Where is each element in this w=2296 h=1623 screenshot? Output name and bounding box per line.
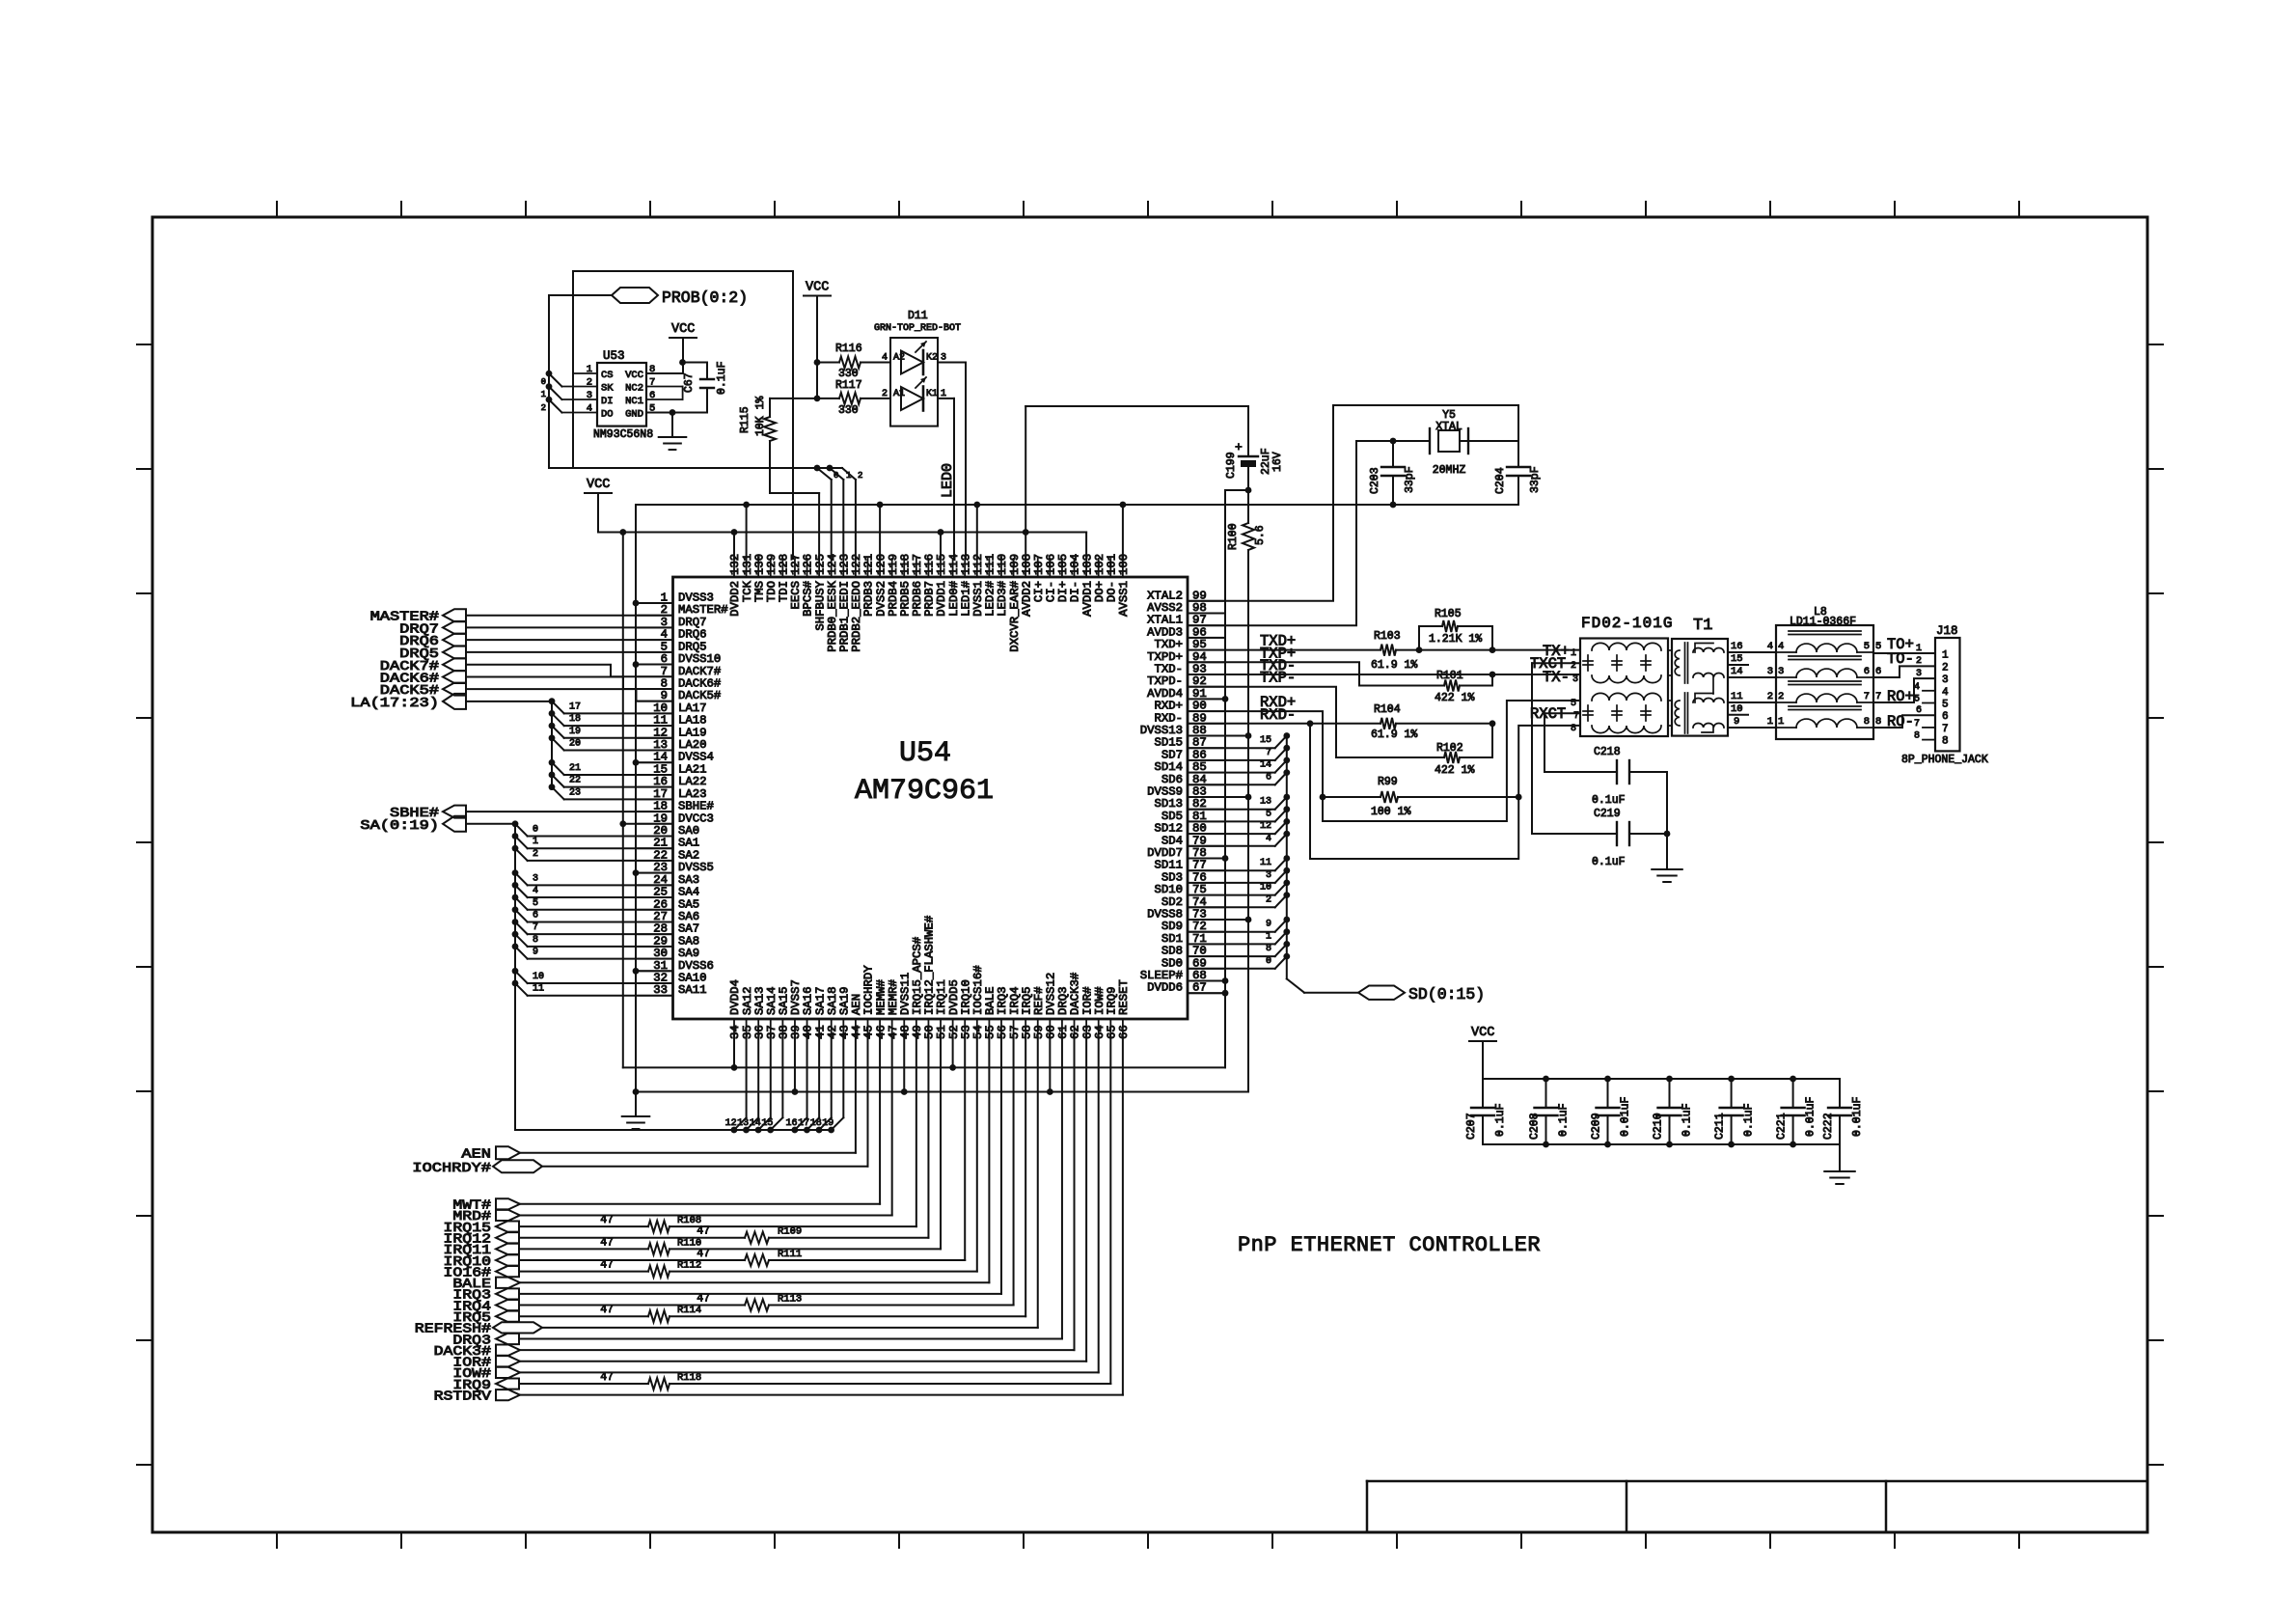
svg-text:C218: C218 <box>1594 746 1621 758</box>
svg-text:DI: DI <box>601 396 614 407</box>
svg-text:1: 1 <box>541 390 546 399</box>
wire TXD- pin 93 to filter TX- <box>1188 674 1580 675</box>
LED D11 green element <box>901 351 923 374</box>
U54 right pins 99-67 stubs, numbers and names <box>1188 601 1223 993</box>
resistor R104 51.9 1% in RXD- line <box>1188 723 1380 725</box>
connector SBHE# <box>443 806 466 818</box>
connector DRQ3 <box>496 1334 519 1344</box>
svg-text:C203: C203 <box>1369 467 1381 494</box>
svg-text:10K 1%: 10K 1% <box>754 396 767 436</box>
junction <box>1664 831 1671 838</box>
resistor R105 1.21K 1% parallel <box>1419 626 1442 650</box>
resistor R114 47 ohm in series with IRQ5 <box>519 1315 648 1317</box>
svg-text:10: 10 <box>1731 703 1743 715</box>
svg-text:2: 2 <box>541 403 546 413</box>
connector MWT# <box>496 1198 520 1209</box>
svg-text:3: 3 <box>1767 666 1773 677</box>
wire SD5 pin 81 to SD bus <box>1188 820 1275 822</box>
wire DACK3# to pin 62 <box>520 1349 1075 1351</box>
wire DVSS7 pin 39 to ground line <box>794 1037 796 1092</box>
wire IRQ5 to pin 58 <box>1025 1037 1026 1316</box>
svg-text:2: 2 <box>533 849 538 860</box>
wire SBHE# to pin 18 <box>466 811 673 812</box>
capacitor C211 0.1uF <box>1731 1079 1733 1108</box>
transformer T1 body <box>1672 639 1728 736</box>
connector IRQ5 <box>496 1311 519 1322</box>
svg-text:T1: T1 <box>1693 617 1712 635</box>
connector DRQ5 <box>443 646 466 658</box>
svg-text:C211: C211 <box>1714 1113 1727 1140</box>
svg-text:330: 330 <box>838 404 859 417</box>
wire DACK6# to pin 8 <box>466 676 673 689</box>
svg-text:RO-: RO- <box>1887 713 1914 730</box>
wire TCK pin 131 to ground rail <box>746 505 748 559</box>
crystal Y5 20MHZ <box>1356 440 1430 442</box>
wire DVDD7 pin 78 <box>1188 858 1225 860</box>
svg-text:0: 0 <box>834 471 838 481</box>
bus LA vertical <box>466 701 552 702</box>
svg-text:61.9 1%: 61.9 1% <box>1371 659 1417 672</box>
svg-text:AVSS1: AVSS1 <box>1117 581 1131 617</box>
capacitor C210 0.1uF <box>1669 1079 1671 1108</box>
svg-text:0: 0 <box>533 824 538 835</box>
bus SA taps to pins 20-33 <box>512 820 519 827</box>
connector REFRESH# <box>493 1322 542 1333</box>
junction <box>670 409 676 416</box>
resistor R113 47 ohm in series with IRQ4 <box>519 1305 745 1307</box>
svg-text:VCC: VCC <box>806 281 829 295</box>
wire DVSS9 pin 83 <box>1188 796 1248 798</box>
capacitor C208 0.1uF <box>1545 1079 1547 1108</box>
svg-text:CS: CS <box>601 370 614 381</box>
junction <box>731 1064 738 1071</box>
svg-text:C199: C199 <box>1225 452 1238 479</box>
connector IRQ15 <box>496 1221 519 1231</box>
svg-text:2: 2 <box>587 377 592 389</box>
node PROB bus taps to pins 124/123/122 <box>814 465 821 472</box>
svg-text:5.6: 5.6 <box>1254 525 1267 545</box>
wire DACK7# to pin 7 <box>466 665 673 677</box>
svg-text:3: 3 <box>1778 666 1784 677</box>
LED D11 red element <box>901 387 923 410</box>
svg-text:5: 5 <box>1942 700 1949 711</box>
svg-text:RESET: RESET <box>1117 979 1131 1015</box>
svg-text:R103: R103 <box>1374 630 1401 643</box>
svg-text:C207: C207 <box>1465 1113 1478 1140</box>
svg-text:6: 6 <box>1916 705 1922 716</box>
wire analog VCC feed <box>1025 405 1248 407</box>
svg-text:1: 1 <box>1942 650 1949 662</box>
svg-text:6: 6 <box>1942 711 1949 723</box>
svg-text:DO: DO <box>601 409 614 421</box>
svg-text:5: 5 <box>1864 641 1870 652</box>
junction <box>1222 855 1229 862</box>
bus SA horizontal below chip <box>515 1129 832 1131</box>
svg-text:12: 12 <box>1260 821 1271 832</box>
svg-text:VCC: VCC <box>671 322 695 337</box>
svg-text:R113: R113 <box>778 1294 802 1306</box>
svg-text:+: + <box>1235 440 1243 454</box>
wire DRQ6 to pin 4 <box>466 639 673 641</box>
svg-text:22: 22 <box>569 776 581 786</box>
svg-text:1: 1 <box>1916 644 1922 654</box>
wire DVSS2 pin 120 to ground rail <box>879 505 881 559</box>
svg-text:R104: R104 <box>1374 703 1401 716</box>
svg-text:47: 47 <box>600 1259 614 1272</box>
svg-text:7: 7 <box>1875 691 1881 702</box>
junction <box>619 529 626 536</box>
wire DVCC3 pin 19 <box>623 823 673 825</box>
svg-text:4: 4 <box>587 403 592 415</box>
connector MASTER# <box>443 609 466 621</box>
svg-text:SK: SK <box>601 383 614 395</box>
svg-text:6: 6 <box>533 910 538 921</box>
svg-text:3: 3 <box>1266 870 1271 881</box>
wire MWT# to pin 46 <box>520 1203 880 1205</box>
svg-text:C219: C219 <box>1594 808 1621 820</box>
wire DRQ3 to pin 61 <box>519 1337 1062 1339</box>
svg-text:3: 3 <box>587 390 592 401</box>
junction <box>877 502 884 509</box>
svg-text:5: 5 <box>533 898 538 909</box>
svg-text:3: 3 <box>1916 669 1922 679</box>
junction <box>1047 1088 1053 1095</box>
wire DVSS6 pin 31 <box>636 970 673 972</box>
wire IRQ4 to pin 57 <box>1013 1037 1015 1306</box>
svg-text:4: 4 <box>882 353 888 364</box>
svg-text:1: 1 <box>1778 716 1784 728</box>
ground below C219 <box>1652 868 1682 870</box>
svg-text:14: 14 <box>750 1118 761 1129</box>
cap bank top rail <box>1483 1078 1840 1080</box>
resistor R100 5.6 to digital ground <box>1247 490 1249 523</box>
wire RXD- to filter RD- <box>1310 724 1580 859</box>
junction <box>1390 438 1397 445</box>
junction <box>633 600 640 607</box>
svg-text:2: 2 <box>1266 894 1271 905</box>
junction <box>633 968 640 975</box>
svg-text:16: 16 <box>1731 641 1743 652</box>
wire SD10 pin 75 to SD bus <box>1188 894 1275 896</box>
svg-text:2: 2 <box>1767 691 1773 702</box>
power VCC symbol above R116/R117 <box>804 295 831 297</box>
svg-text:4: 4 <box>1767 641 1773 652</box>
svg-text:R100: R100 <box>1227 523 1240 550</box>
resistor R116 <box>817 362 839 364</box>
wire SD9 pin 72 to SD bus <box>1188 931 1275 933</box>
wire IRQ11 to pin 51 <box>940 1037 942 1249</box>
connector DACK7# <box>443 658 466 671</box>
svg-text:U54: U54 <box>899 737 951 770</box>
wire SD13 pin 82 to SD bus <box>1188 809 1275 811</box>
svg-text:NM93C56N8: NM93C56N8 <box>593 428 653 441</box>
wire IRQ15 to pin 49 <box>916 1037 917 1226</box>
capacitor C199 22uF 16V <box>1247 406 1249 455</box>
wire DVSS3 pin 1 <box>636 602 673 604</box>
svg-text:7: 7 <box>1864 691 1870 702</box>
wire analog VCC to AVDD2 pin 108 <box>1025 406 1026 559</box>
svg-text:422 1%: 422 1% <box>1435 764 1475 777</box>
svg-text:19: 19 <box>569 727 581 737</box>
svg-text:18: 18 <box>810 1118 822 1129</box>
wire SD6 pin 84 to SD bus <box>1188 784 1275 785</box>
svg-text:C210: C210 <box>1653 1113 1665 1140</box>
svg-text:17: 17 <box>798 1118 809 1129</box>
connector BALE <box>496 1278 520 1288</box>
svg-text:19: 19 <box>822 1118 834 1129</box>
wire TO- to J18 pin 2 <box>1873 666 1935 677</box>
U53 pin numbers and names <box>587 364 656 421</box>
VCC line below chip <box>623 1066 1225 1068</box>
junction <box>1245 487 1252 494</box>
resistor R101 422 1% TXP+ to TXD- <box>1188 662 1444 685</box>
wire SD0 pin 69 to SD bus <box>1188 968 1275 970</box>
resistor R108 47 ohm in series with IRQ15 <box>519 1225 648 1227</box>
svg-text:6: 6 <box>1875 666 1881 677</box>
svg-text:1.21K 1%: 1.21K 1% <box>1429 633 1482 646</box>
wire SD2 pin 74 to SD bus <box>1188 906 1275 908</box>
wire VCC to R116/R117 <box>816 296 818 399</box>
svg-text:LA(17:23): LA(17:23) <box>350 696 439 711</box>
svg-text:9: 9 <box>1734 716 1739 728</box>
wire RSTDRV to pin 66 <box>520 1394 1123 1396</box>
svg-text:20MHZ: 20MHZ <box>1433 464 1466 477</box>
svg-text:C209: C209 <box>1591 1113 1603 1140</box>
junction <box>973 502 980 509</box>
svg-text:6: 6 <box>1266 772 1271 783</box>
wire IOR# to pin 63 <box>520 1361 1086 1362</box>
junction <box>1490 646 1496 653</box>
junction <box>792 1088 799 1095</box>
connector IO16# <box>496 1266 519 1277</box>
svg-text:NC1: NC1 <box>625 396 643 407</box>
connector IRQ11 <box>496 1244 519 1254</box>
wire IO16# to pin 54 <box>976 1037 978 1272</box>
wire MASTER# to pin 2 <box>466 615 673 617</box>
svg-text:9: 9 <box>1266 920 1271 930</box>
svg-text:LED0: LED0 <box>940 463 956 498</box>
wire PROB0 to pin 124 <box>831 480 833 559</box>
svg-text:1: 1 <box>846 471 851 481</box>
connector IRQ3 <box>496 1288 519 1299</box>
svg-text:2: 2 <box>858 471 862 481</box>
svg-text:7: 7 <box>1914 719 1920 729</box>
wire IOCHRDY# to pin 45 <box>542 1166 867 1168</box>
svg-text:R115: R115 <box>739 406 752 433</box>
svg-text:4: 4 <box>1942 687 1949 699</box>
svg-text:R102: R102 <box>1436 742 1463 755</box>
svg-text:XTAL: XTAL <box>1435 421 1462 433</box>
resistor R103 51.9 1% in TXD+ line <box>1188 649 1380 651</box>
wire AVDD4 pin 91 <box>1188 698 1225 700</box>
svg-text:7: 7 <box>1266 748 1271 758</box>
svg-text:14: 14 <box>1260 760 1271 771</box>
ground below cap bank <box>1839 1144 1841 1171</box>
svg-text:R111: R111 <box>778 1249 802 1260</box>
svg-text:6: 6 <box>649 390 655 401</box>
resistor R110 47 ohm in series with IRQ11 <box>519 1248 648 1250</box>
svg-text:66: 66 <box>1117 1025 1131 1039</box>
bus PROB(0:2) hexagon symbol <box>612 288 658 303</box>
wire IRQ9 to pin 65 <box>1109 1037 1111 1384</box>
wire RXCT to C218 <box>1544 712 1580 714</box>
svg-text:VCC: VCC <box>625 370 643 381</box>
svg-text:1: 1 <box>1571 648 1576 659</box>
ground line below chip <box>636 1091 1248 1093</box>
svg-text:100: 100 <box>1117 554 1131 575</box>
resistor R99 100 1% across RX pair <box>1323 796 1380 798</box>
wire AVDD1 pin 103 to VCC rail <box>1085 533 1087 560</box>
wire DVSS12 pin 60 to ground line <box>1049 1037 1051 1092</box>
wire AVSS1 pin 100 to ground rail <box>1122 505 1124 559</box>
svg-text:2: 2 <box>1778 691 1784 702</box>
svg-text:16: 16 <box>786 1118 798 1129</box>
wire DVDD5 pin 52 to VCC line <box>952 1037 954 1067</box>
inductor L8 body <box>1776 625 1873 739</box>
wire VCC stem <box>597 493 599 533</box>
filter FD02-101G body <box>1580 639 1668 737</box>
svg-text:47: 47 <box>600 1304 614 1316</box>
wire AVSS2 pin 98 <box>1188 613 1225 615</box>
wire SD8 pin 70 to SD bus <box>1188 955 1275 957</box>
connector IOCHRDY# <box>493 1160 542 1172</box>
ground below U53 <box>671 413 673 438</box>
junction <box>1245 917 1252 923</box>
svg-text:J18: J18 <box>1936 624 1958 638</box>
svg-text:VCC: VCC <box>587 478 610 492</box>
power VCC symbol above cap bank <box>1469 1040 1496 1042</box>
junction <box>633 759 640 766</box>
svg-text:C208: C208 <box>1529 1113 1542 1140</box>
connector IOR# <box>496 1356 520 1366</box>
svg-text:9: 9 <box>533 948 538 958</box>
resistor R117 <box>817 398 839 399</box>
bus LA taps to pins 10-17 <box>549 698 556 704</box>
svg-text:R101: R101 <box>1436 670 1463 682</box>
wires filter to T1 <box>1668 649 1672 651</box>
border tick marks <box>137 202 2163 1548</box>
capacitor C209 0.01uF <box>1607 1079 1609 1108</box>
svg-text:8: 8 <box>533 935 538 946</box>
svg-text:FD02-101G: FD02-101G <box>1581 615 1673 632</box>
wire U53 GND pin <box>646 412 707 414</box>
wire DRQ5 to pin 5 <box>466 651 673 653</box>
svg-text:1: 1 <box>1266 931 1271 942</box>
svg-text:2: 2 <box>882 389 888 399</box>
U54 bottom pins 34-66 stubs, numbers and names <box>734 1019 1123 1037</box>
svg-text:7: 7 <box>649 377 655 389</box>
svg-text:33pF: 33pF <box>1404 466 1416 493</box>
svg-text:VCC: VCC <box>1471 1026 1494 1040</box>
wire DVDD2 pin 132 to VCC rail <box>733 533 735 560</box>
junction <box>679 359 686 366</box>
wire SD1 pin 71 to SD bus <box>1188 943 1275 945</box>
svg-text:C204: C204 <box>1494 467 1507 494</box>
svg-text:1: 1 <box>587 364 592 375</box>
svg-text:0.1uF: 0.1uF <box>1558 1103 1571 1137</box>
wire LED cathode K1 to LED0# pin 114 <box>938 398 954 399</box>
junction <box>938 529 944 536</box>
svg-text:6: 6 <box>1864 666 1870 677</box>
U54 left pins 1-33 stubs, numbers and names <box>638 603 673 996</box>
svg-text:C222: C222 <box>1822 1113 1835 1140</box>
svg-text:47: 47 <box>697 1225 710 1238</box>
svg-text:100 1%: 100 1% <box>1371 806 1411 818</box>
connector DACK3# <box>496 1345 520 1356</box>
junction <box>1320 794 1326 801</box>
svg-text:4: 4 <box>1914 682 1920 693</box>
EEPROM circuit enclosure box <box>573 271 793 468</box>
connector bus LA(17:23) <box>443 694 466 709</box>
ground rail above chip <box>636 504 1518 506</box>
wire U53 VCC pin to C67 <box>682 338 684 373</box>
svg-text:0.01uF: 0.01uF <box>1805 1096 1818 1137</box>
svg-text:4: 4 <box>1778 641 1784 652</box>
bus SD to hexagon <box>1287 978 1304 992</box>
svg-text:R114: R114 <box>677 1305 701 1316</box>
connector IRQ12 <box>496 1232 519 1243</box>
junction <box>1023 529 1029 536</box>
wire ground vertical left of chip <box>635 505 637 1092</box>
svg-text:RXD-: RXD- <box>1260 706 1296 724</box>
power VCC symbol left of chip <box>585 492 612 494</box>
svg-text:GND: GND <box>625 409 643 421</box>
bus SA vertical <box>466 823 515 825</box>
junction <box>901 1088 908 1095</box>
junction <box>633 869 640 876</box>
wire DVSS10 pin 6 <box>636 664 673 666</box>
resistor R111 47 ohm in series with IRQ10 <box>519 1259 745 1261</box>
svg-text:PROB(0:2): PROB(0:2) <box>662 289 748 307</box>
wire DVSS11 pin 48 to ground line <box>903 1037 905 1092</box>
svg-text:422 1%: 422 1% <box>1435 692 1475 704</box>
wire IOW# to pin 64 <box>520 1371 1099 1373</box>
junction <box>1416 646 1423 653</box>
svg-text:C67: C67 <box>683 372 696 393</box>
svg-text:10: 10 <box>533 972 544 982</box>
svg-text:14: 14 <box>1731 666 1743 677</box>
wire SD14 pin 85 to SD bus <box>1188 772 1275 774</box>
svg-text:R112: R112 <box>677 1260 701 1272</box>
wire VCC vertical right of chip (AVDD4/DVDD7/DVDD6) <box>1224 490 1226 1067</box>
wire RO+ to J18 pin 3 <box>1873 678 1935 702</box>
wire AEN to pin 44 <box>520 1152 856 1154</box>
svg-text:4: 4 <box>533 886 538 896</box>
wire VCC to cap bank rail <box>1482 1041 1484 1079</box>
connector IRQ10 <box>496 1254 519 1265</box>
resistor R109 47 ohm in series with IRQ12 <box>519 1237 745 1239</box>
wire IRQ3 to pin 56 <box>519 1293 1001 1295</box>
L8 internal windings <box>1776 631 1873 728</box>
svg-text:15: 15 <box>1260 735 1271 746</box>
connector IRQ4 <box>496 1300 519 1310</box>
svg-text:C221: C221 <box>1776 1113 1789 1140</box>
svg-text:0.1uF: 0.1uF <box>716 361 728 395</box>
svg-text:1: 1 <box>1767 716 1773 728</box>
svg-text:15: 15 <box>1731 653 1743 665</box>
capacitor C222 0.01uF <box>1839 1079 1841 1108</box>
wire DVSS4 pin 14 <box>636 761 673 763</box>
svg-text:61.9 1%: 61.9 1% <box>1371 729 1417 741</box>
svg-text:20: 20 <box>569 739 581 750</box>
wire SD15 pin 87 to SD bus <box>1188 747 1275 749</box>
wire TO+ to J18 pin 1 <box>1873 652 1935 654</box>
border frame <box>152 217 2147 1532</box>
connector DRQ7 <box>443 621 466 634</box>
ground symbol below chip left <box>635 1092 637 1117</box>
svg-text:4: 4 <box>1266 834 1271 844</box>
wire SD4 pin 79 to SD bus <box>1188 845 1275 847</box>
